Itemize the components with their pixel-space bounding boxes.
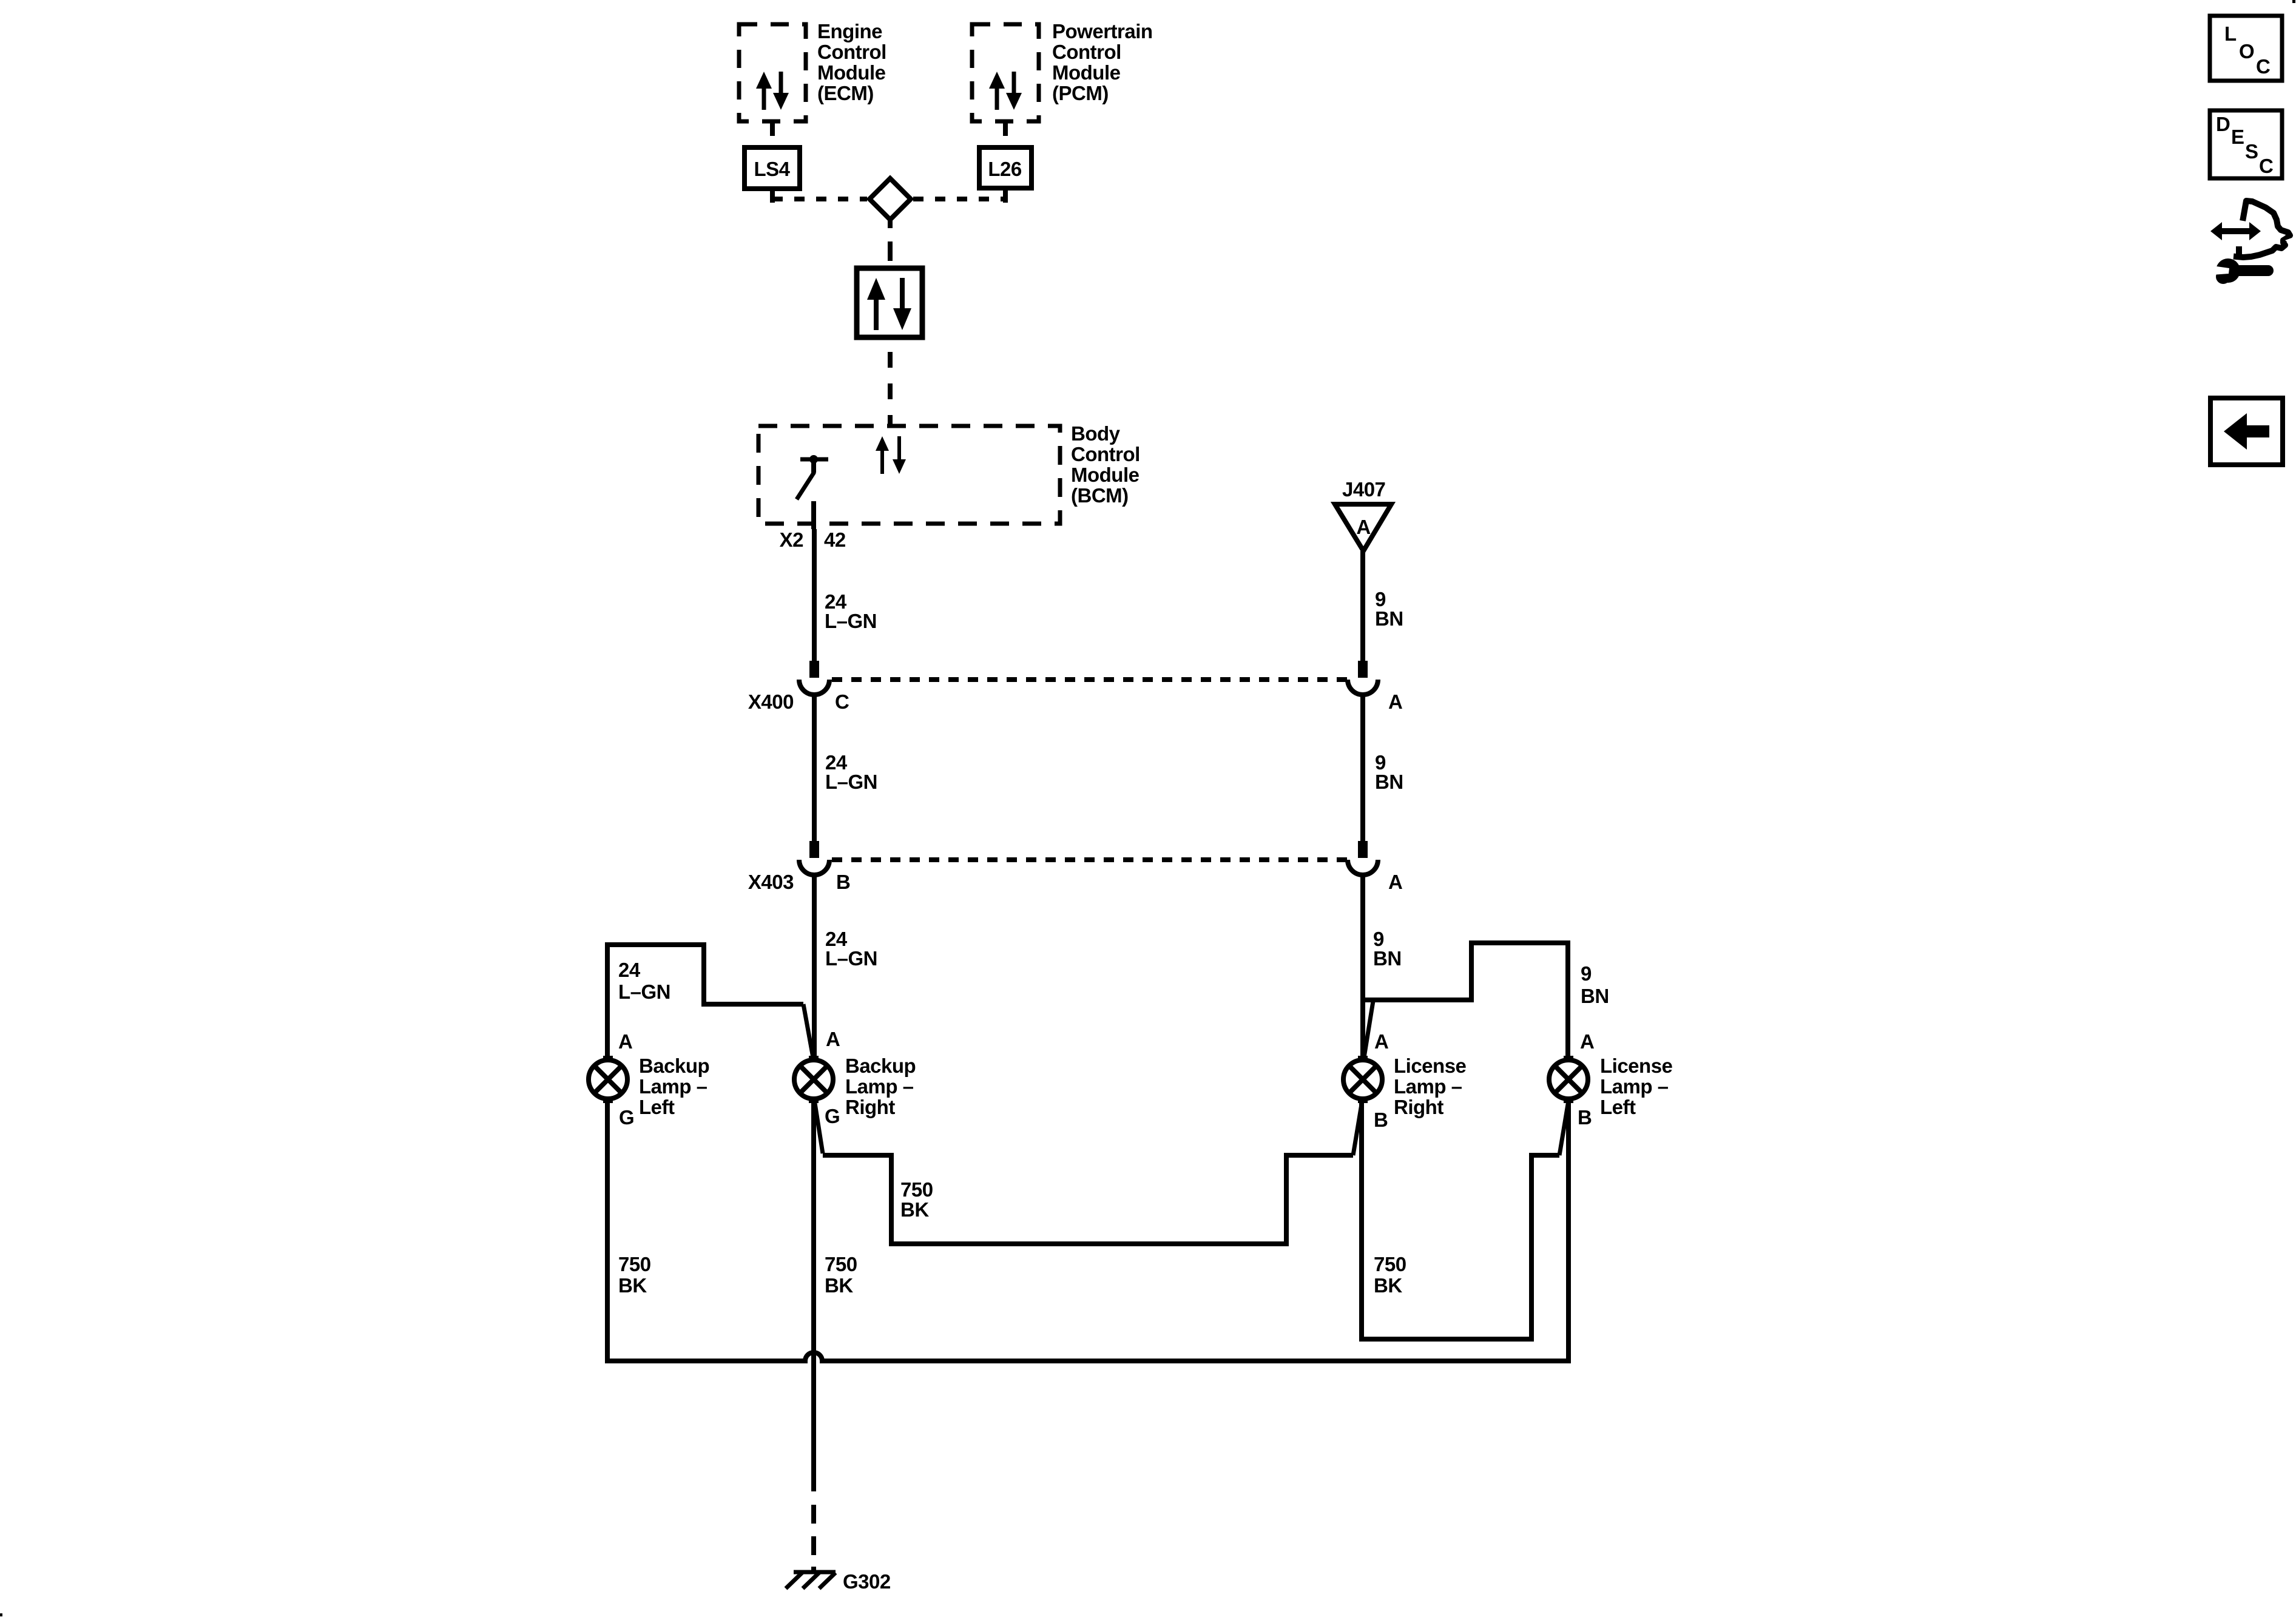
svg-text:O: O [2239,40,2254,62]
wire J407 to X400 [1360,551,1365,663]
svg-text:Right: Right [1394,1096,1443,1118]
svg-text:BK: BK [618,1274,647,1297]
BCM serial data arrows [876,436,906,474]
svg-text:Backup: Backup [639,1055,709,1077]
svg-text:750: 750 [825,1253,857,1275]
BCM label text [1071,422,1140,507]
svg-text:L–GN: L–GN [825,610,877,632]
svg-text:(PCM): (PCM) [1052,82,1109,104]
svg-text:A: A [1374,1030,1388,1053]
wire backup-right G to G302 (main ground vertical) [811,1099,816,1491]
svg-text:B: B [836,871,850,893]
icon harness routing (double arrow, harness outline, wrench) [2210,201,2294,284]
serial data box [857,268,922,337]
wire license-left B down to ground bus [1566,1099,1571,1363]
svg-text:B: B [1374,1109,1388,1131]
dashed wire diamond to serial box [888,220,893,261]
connector X400 left (pin C) [799,661,829,695]
svg-text:Lamp –: Lamp – [845,1075,914,1098]
svg-text:S: S [2245,140,2258,163]
svg-text:License: License [1600,1055,1673,1077]
svg-text:Backup: Backup [845,1055,916,1077]
connector X403 right (pin A) [1348,841,1378,875]
svg-text:BK: BK [900,1198,929,1221]
wire stub PCM to L26 [1003,121,1008,136]
svg-text:Module: Module [1071,464,1140,486]
icon DESC box [2210,110,2282,178]
svg-text:LS4: LS4 [754,158,790,180]
svg-text:Lamp –: Lamp – [1394,1075,1462,1098]
module PCM box (dashed) [972,24,1039,121]
license left description [1600,1055,1673,1118]
connector X400 dashed harness line [832,677,1348,682]
svg-text:750: 750 [618,1253,651,1275]
page corner dot bottom-left [0,1613,2,1616]
svg-text:Powertrain: Powertrain [1052,20,1153,42]
wire switch to BCM pin [811,501,816,529]
wire X400 to X403 (right) [1360,695,1365,842]
svg-text:(BCM): (BCM) [1071,484,1129,507]
svg-text:Control: Control [1052,41,1121,63]
icon LOC box [2210,16,2282,81]
wire X403 to backup lamp right (main left vertical) [812,875,817,1060]
page corner dot top-right [2292,0,2295,3]
svg-text:Engine: Engine [817,20,882,42]
dashed bus wire right of diamond [913,197,1005,201]
connector X403 dashed harness line [832,857,1348,862]
wire backup-left G down [605,1099,610,1363]
svg-text:X403: X403 [748,871,794,893]
svg-text:A: A [1356,516,1370,538]
license right description [1394,1055,1467,1118]
svg-text:A: A [1388,871,1402,893]
ECM serial data arrows [756,72,789,110]
wire stub L26 to splice line [1003,188,1008,203]
wire branch to license lamp left [1363,943,1568,1059]
PCM serial data arrows [989,72,1022,110]
svg-text:L–GN: L–GN [618,981,670,1003]
svg-text:A: A [1388,690,1402,713]
BCM internal switch [797,455,828,499]
dashed wire to ground [811,1505,816,1571]
svg-text:G: G [825,1105,840,1127]
svg-text:Module: Module [817,61,886,84]
svg-text:BN: BN [1581,985,1609,1007]
backup left description [639,1055,709,1118]
svg-text:A: A [618,1030,632,1053]
svg-text:G302: G302 [843,1570,891,1593]
svg-text:42: 42 [824,528,846,551]
svg-text:C: C [2256,55,2270,78]
dashed bus wire left of diamond [772,197,867,201]
icon back arrow box [2210,398,2283,465]
lamp License Lamp - Right [1343,1058,1382,1101]
lamp License Lamp - Left [1549,1058,1588,1101]
svg-text:L: L [2224,22,2237,45]
svg-text:24: 24 [618,959,641,981]
wire stub LS4 to splice line [770,189,775,203]
ECM label text [817,20,886,104]
svg-text:License: License [1394,1055,1467,1077]
svg-text:9: 9 [1581,962,1592,985]
svg-text:X400: X400 [748,690,794,713]
connector X400 right (pin A) [1348,661,1378,695]
svg-text:Lamp –: Lamp – [639,1075,707,1098]
svg-text:G: G [619,1106,634,1129]
lamp Backup Lamp - Right [794,1058,833,1101]
svg-text:A: A [826,1028,840,1050]
connector X403 left (pin B) [799,841,829,875]
svg-text:BN: BN [1373,947,1402,970]
svg-text:Left: Left [1600,1096,1636,1118]
svg-text:BK: BK [825,1274,853,1297]
connector ID box LS4 [745,147,800,189]
svg-text:D: D [2216,113,2230,135]
wire branch to backup lamp left [607,945,813,1060]
wire backup-right G to inner ground loop [814,1099,1362,1244]
lamp Backup Lamp - Left [589,1058,627,1101]
module ECM box (dashed) [739,24,806,121]
PCM label text [1052,20,1153,104]
wire license-right B to license-left B loop [1362,1100,1568,1339]
wire X403 to license lamps (main right vertical) [1360,875,1365,1058]
splice diamond [869,178,911,220]
svg-text:Left: Left [639,1096,675,1118]
module BCM box (dashed) [758,426,1060,524]
svg-text:Control: Control [1071,443,1140,465]
svg-text:BK: BK [1374,1274,1402,1297]
ground G302 [786,1572,836,1588]
ground bus horizontal with hop over main wire [605,1352,1571,1361]
dashed wire serial box to BCM [888,352,893,424]
svg-text:BN: BN [1375,607,1403,630]
svg-text:L26: L26 [988,158,1022,180]
svg-text:Lamp –: Lamp – [1600,1075,1669,1098]
svg-text:X2: X2 [780,528,804,551]
svg-text:Control: Control [817,41,886,63]
wire stub ECM to LS4 [770,121,775,136]
svg-text:Body: Body [1071,422,1121,445]
svg-text:E: E [2231,126,2244,148]
svg-text:Module: Module [1052,61,1121,84]
svg-text:J407: J407 [1342,478,1385,501]
svg-text:B: B [1578,1106,1592,1129]
wire X400 to X403 (left) [812,695,817,842]
svg-text:BN: BN [1375,771,1403,793]
svg-text:750: 750 [900,1178,933,1201]
svg-text:L–GN: L–GN [825,771,877,793]
svg-text:L–GN: L–GN [825,947,877,970]
junction J407 triangle [1335,504,1391,551]
svg-text:(ECM): (ECM) [817,82,874,104]
backup right description [845,1055,916,1118]
serial data arrows [867,278,911,330]
wire BCM to X400 [812,529,817,663]
svg-text:C: C [2259,155,2273,177]
connector ID box L26 [979,147,1032,188]
svg-text:C: C [835,690,849,713]
svg-text:A: A [1580,1030,1594,1053]
svg-text:750: 750 [1374,1253,1406,1275]
svg-text:Right: Right [845,1096,895,1118]
